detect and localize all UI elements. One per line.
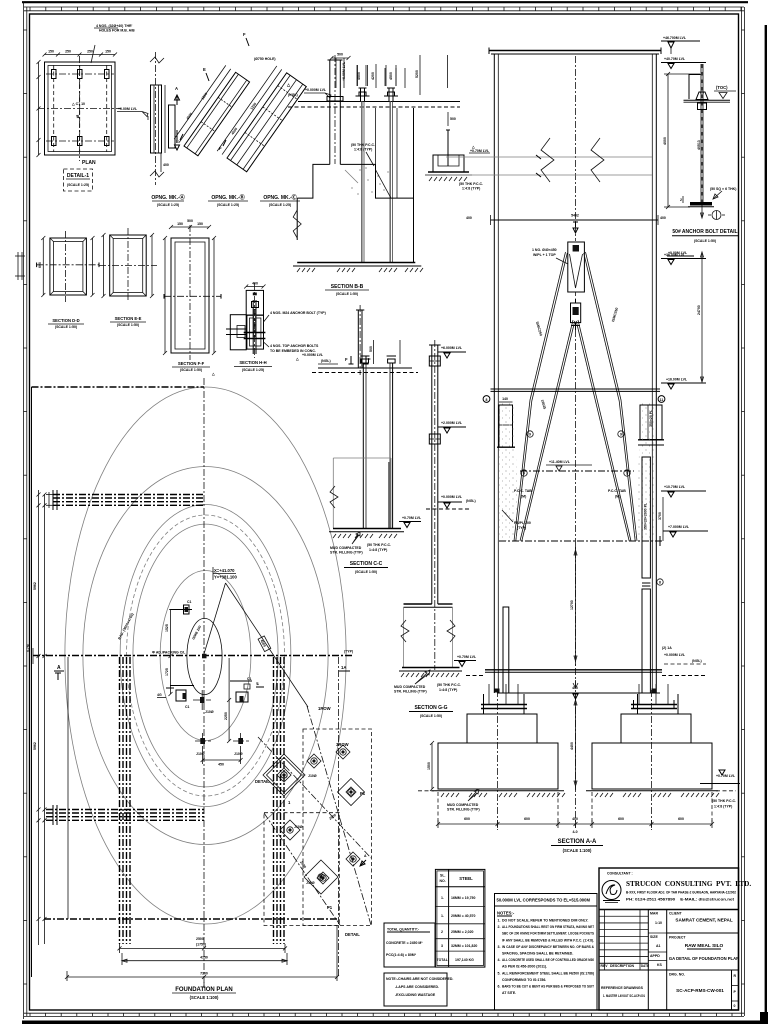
section A-A soil hatches <box>441 793 459 797</box>
svg-text:CONSULTANT :: CONSULTANT : <box>607 872 633 876</box>
svg-text:(TOC): (TOC) <box>716 85 728 90</box>
plan center small ellipse <box>187 618 222 694</box>
svg-text:BARS TO BE CUT & BENT AS PER B: BARS TO BE CUT & BENT AS PER BBS & PROPO… <box>502 985 595 989</box>
anchor detail top hook <box>689 75 702 100</box>
svg-text:+0.70M LVL: +0.70M LVL <box>716 774 736 778</box>
diamond 3 <box>336 745 350 759</box>
section A-A left center dashdot <box>497 690 499 830</box>
DETAIL-1 leader note <box>91 45 95 63</box>
svg-text:-EXCLUDING WASTAGE: -EXCLUDING WASTAGE <box>395 993 436 997</box>
svg-text:(SCALE 1:50): (SCALE 1:50) <box>180 368 202 372</box>
tower grade dashes at slab <box>466 675 485 677</box>
plan lower strip left anchor <box>52 805 54 825</box>
section C-C bottom <box>333 528 401 530</box>
svg-text:C1: C1 <box>187 600 192 604</box>
svg-text:ALL CONCRETE USED SHALL BE OF: ALL CONCRETE USED SHALL BE OF CONTROLLED… <box>502 958 594 962</box>
svg-text:B-XXX, FIRST FLOOR ADJ. OF TAR: B-XXX, FIRST FLOOR ADJ. OF TAR PHASE-2 G… <box>626 891 736 895</box>
section F-F side dims <box>164 238 166 353</box>
svg-text:140: 140 <box>502 397 508 401</box>
plan bottom dim row 2 <box>122 960 287 962</box>
tower left bracket <box>499 405 513 447</box>
svg-text:P1: P1 <box>360 791 366 796</box>
section E-E centerlines <box>99 265 157 267</box>
tower center dim at slab <box>575 545 577 666</box>
svg-text:1:4:8 (TYP): 1:4:8 (TYP) <box>714 805 732 809</box>
opening MK-B cross ticks <box>201 122 215 132</box>
svg-text:3ROW: 3ROW <box>336 742 349 747</box>
tower break zigzag right <box>591 138 604 182</box>
diamond 4 P1 <box>338 779 365 806</box>
svg-text:1.: 1. <box>498 919 501 923</box>
svg-text:4 NOS. (32Ø+40) THR': 4 NOS. (32Ø+40) THR' <box>96 24 132 28</box>
svg-text:MUD COMPACTED: MUD COMPACTED <box>330 546 362 550</box>
svg-text:9: 9 <box>529 433 531 437</box>
plan bottom dim row 3 <box>67 976 337 978</box>
svg-text:+0.000M LVL: +0.000M LVL <box>441 495 463 499</box>
opening MK-A bottom dim <box>160 153 162 172</box>
svg-text:2500: 2500 <box>196 937 204 941</box>
plan ring ellipse 3 <box>120 505 291 807</box>
opening MK-A arrows <box>175 95 180 105</box>
plan mid cluster center bolt <box>200 697 205 703</box>
diamonds dashdot diagonal 3 <box>307 706 371 925</box>
svg-text:P.C.C. TAB: P.C.C. TAB <box>608 489 626 493</box>
opening MK-A centerline <box>155 52 157 185</box>
svg-text:20MM = 40,570: 20MM = 40,570 <box>451 914 475 918</box>
section H-H left box <box>230 315 246 350</box>
svg-text:(SCALE 1:25): (SCALE 1:25) <box>269 203 291 207</box>
svg-text:DATE: DATE <box>641 964 650 968</box>
svg-text:(50 THK P.C.C.: (50 THK P.C.C. <box>437 683 461 687</box>
tower top cap <box>489 50 661 52</box>
title block logo <box>602 881 621 900</box>
svg-text:(2) 1A: (2) 1A <box>662 646 672 650</box>
svg-text:SC-ACP-RMS-CW-001: SC-ACP-RMS-CW-001 <box>676 988 724 993</box>
svg-text:P1: P1 <box>327 905 333 910</box>
section B-B right pedestal dim <box>447 112 449 126</box>
svg-text:8: 8 <box>486 398 488 402</box>
svg-text:(NGL): (NGL) <box>321 359 331 363</box>
svg-text:SECTION F-F: SECTION F-F <box>178 361 205 366</box>
svg-text:+0.70M LVL: +0.70M LVL <box>470 149 490 153</box>
svg-text:+0.000M LVL: +0.000M LVL <box>664 653 686 657</box>
svg-text:PCC(1:4:8) = 80M³: PCC(1:4:8) = 80M³ <box>386 953 417 957</box>
plan horizontal centerline <box>33 655 352 657</box>
section C-C break zigzag <box>330 486 338 508</box>
svg-text:+16.00M LVL: +16.00M LVL <box>666 378 688 382</box>
svg-text:4200: 4200 <box>371 72 375 80</box>
section F-F outer rect <box>171 238 209 353</box>
svg-text:1. MASTER LAYOUT SC-ACP-001: 1. MASTER LAYOUT SC-ACP-001 <box>603 994 645 998</box>
svg-text:1500: 1500 <box>427 762 431 770</box>
svg-text:DETAIL: DETAIL <box>255 779 270 784</box>
tower floor line <box>491 388 661 390</box>
tower base right pedestal plates <box>631 704 677 706</box>
svg-text:TOTAL: TOTAL <box>437 958 449 962</box>
svg-text:25MM = 2,020: 25MM = 2,020 <box>451 930 474 934</box>
plan ellipse 2 <box>83 467 328 845</box>
svg-text:Φ AD./PACKING C/L: Φ AD./PACKING C/L <box>152 651 186 655</box>
right ruler lines <box>741 7 743 1016</box>
section B-B footing stepped outline <box>297 164 330 198</box>
svg-text:CONCRETE = 2450 M³: CONCRETE = 2450 M³ <box>386 941 423 945</box>
tower base left pedestal plates <box>481 704 527 706</box>
svg-text:SBC OF 200 KN/M2 FOR 50MM SETT: SBC OF 200 KN/M2 FOR 50MM SETTLEMENT. LO… <box>502 932 595 936</box>
svg-text:5462: 5462 <box>571 214 579 218</box>
svg-text:PROJECT: PROJECT <box>669 936 686 940</box>
section B-B left break line <box>293 210 301 238</box>
DETAIL-1 top dimension line <box>45 54 116 56</box>
section A-A left footing slab <box>438 743 558 789</box>
svg-text:+7.000M LVL: +7.000M LVL <box>668 525 690 529</box>
section B-B bottom soil hatch <box>297 268 315 272</box>
diamond 6 big <box>304 860 338 894</box>
section D-D inner rect <box>53 242 83 292</box>
plan C1 dim bracket <box>169 609 183 611</box>
svg-text:1A: 1A <box>341 665 346 670</box>
svg-text:OPNG. MK.-Ⓒ: OPNG. MK.-Ⓒ <box>263 194 296 201</box>
svg-text:150: 150 <box>105 50 111 54</box>
svg-text:E: E <box>203 67 206 72</box>
svg-text:OPNG. MK.-Ⓑ: OPNG. MK.-Ⓑ <box>211 194 244 201</box>
svg-text:SL.: SL. <box>440 874 445 878</box>
svg-text:12700: 12700 <box>570 600 574 610</box>
svg-text:J10Ø: J10Ø <box>205 710 214 714</box>
svg-text:400: 400 <box>466 216 472 220</box>
DETAIL-1 anchor plate plan outer square <box>45 62 116 155</box>
opening MK-B inner lines <box>187 74 239 148</box>
section F-F inner rect <box>175 242 205 349</box>
svg-text:STR. FILLING (TYP): STR. FILLING (TYP) <box>394 690 427 694</box>
section A-A right footing slab <box>592 743 712 789</box>
svg-text:OPNG. MK.-Ⓐ: OPNG. MK.-Ⓐ <box>151 194 184 201</box>
section H-H cross bars <box>244 332 266 334</box>
svg-text:-LAPS ARE CONSIDERED.: -LAPS ARE CONSIDERED. <box>395 985 439 989</box>
steel table rows <box>435 906 485 908</box>
svg-text:SECTION H-H: SECTION H-H <box>239 360 266 365</box>
section G-G slab bars <box>404 603 432 605</box>
svg-text:APPD: APPD <box>650 954 660 958</box>
svg-text:STRUCON CONSULTING PVT. LTD: STRUCON CONSULTING PVT. LTD. <box>626 880 751 888</box>
right black edge <box>765 25 767 1024</box>
svg-text:150: 150 <box>197 222 203 226</box>
svg-text:△ C7 10: △ C7 10 <box>71 102 85 106</box>
svg-text:24700: 24700 <box>697 305 701 315</box>
page frame top ruler band <box>24 6 744 8</box>
section B-B extra dim verticals <box>335 58 337 88</box>
tower break lines grey <box>446 156 652 158</box>
anchor detail bottom plate <box>690 202 712 206</box>
svg-text:9: 9 <box>523 472 525 476</box>
diamonds dashed box B <box>264 813 339 926</box>
anchor detail nut <box>698 103 707 110</box>
plan left vertical column strip <box>119 657 121 944</box>
tower left dim near B-B <box>419 55 421 95</box>
svg-text:4G: 4G <box>157 693 162 697</box>
section G-G bottom <box>402 667 460 669</box>
svg-text:600: 600 <box>524 817 530 821</box>
svg-text:400: 400 <box>572 817 578 821</box>
section G-G column <box>431 345 433 604</box>
svg-text:(NGL): (NGL) <box>466 499 476 503</box>
plan mid cluster vertical dim <box>228 658 230 741</box>
svg-text:(NGL): (NGL) <box>288 93 298 97</box>
diamonds dashdot diagonal 2 <box>264 813 340 925</box>
tower left wall <box>493 54 495 693</box>
svg-text:500: 500 <box>369 346 373 352</box>
svg-text:DETAIL: DETAIL <box>345 932 360 937</box>
svg-text:+46.700M LVL: +46.700M LVL <box>663 36 687 40</box>
svg-text:500: 500 <box>187 219 193 223</box>
svg-text:5200: 5200 <box>415 70 419 78</box>
svg-text:(NGL): (NGL) <box>692 659 702 663</box>
section A-A left dim <box>431 743 433 789</box>
svg-text:(SCALE 1:50): (SCALE 1:50) <box>55 325 77 329</box>
section G-G marker box upper <box>429 356 440 366</box>
level note header box <box>495 894 598 1011</box>
svg-text:+6.000M LVL: +6.000M LVL <box>441 346 463 350</box>
svg-text:F: F <box>243 32 246 37</box>
svg-text:400: 400 <box>660 216 666 220</box>
svg-text:DO NOT SCALE, REFER TO MENTION: DO NOT SCALE, REFER TO MENTIONED DIM ONL… <box>502 919 588 923</box>
svg-text:MAR: MAR <box>650 912 658 916</box>
svg-text:+6.00M LVL: +6.00M LVL <box>342 61 346 81</box>
svg-text:AT SITE.: AT SITE. <box>502 991 516 995</box>
tower right inner column plates <box>642 457 650 578</box>
tower right wall <box>651 54 653 693</box>
tower break end ticks <box>536 155 541 159</box>
svg-text:NO.: NO. <box>440 879 446 883</box>
svg-text:ALL REINFORCEMENT STEEL SHALL: ALL REINFORCEMENT STEEL SHALL BE FE500 (… <box>502 971 594 975</box>
steel table column divider <box>448 869 450 967</box>
total quantity box <box>384 923 435 967</box>
opening MK-C slanted body <box>227 73 306 172</box>
tower right bracket <box>640 405 662 440</box>
svg-text:P.C.C. TAB: P.C.C. TAB <box>514 489 532 493</box>
tower slab lines <box>485 669 662 671</box>
title block mini column right <box>731 970 733 1010</box>
note chairs box <box>384 973 447 1006</box>
svg-text:+10.70M LVL: +10.70M LVL <box>664 485 686 489</box>
svg-text:DESCRIPTION: DESCRIPTION <box>610 964 634 968</box>
tower right vertical dim <box>701 88 703 218</box>
svg-text:NOTE:-CHAIRS ARE NOT CONSIDERE: NOTE:-CHAIRS ARE NOT CONSIDERED. <box>386 977 453 981</box>
page frame outer top line <box>22 1 748 3</box>
svg-text:600: 600 <box>678 817 684 821</box>
svg-text:4000: 4000 <box>663 137 667 145</box>
svg-text:TOTAL QUANTITY:-: TOTAL QUANTITY:- <box>387 928 420 932</box>
revision table rows <box>599 909 648 911</box>
plan diagonal dim marker 1 <box>258 636 271 652</box>
section B-B long anchor bolts grey <box>361 102 363 263</box>
svg-text:(TYP): (TYP) <box>344 650 353 654</box>
plan top boundary dashdot <box>32 386 205 388</box>
section B-B stipple diagonals <box>376 170 392 199</box>
section A-A center dim arrows <box>575 694 577 790</box>
section A-A left footing step <box>467 714 537 743</box>
svg-text:IN CASE OF ANY DISCREPANCY BET: IN CASE OF ANY DISCREPANCY BETWEEN NO. O… <box>502 945 594 949</box>
svg-text:50# ANCHOR BOLT DETAIL: 50# ANCHOR BOLT DETAIL <box>672 229 737 235</box>
plan bottom boundary dashdot <box>44 918 337 920</box>
svg-text:MUD COMPACTED: MUD COMPACTED <box>447 803 479 807</box>
svg-text:450: 450 <box>218 763 224 767</box>
tower lower dim right <box>662 497 664 541</box>
svg-text:500: 500 <box>337 53 343 57</box>
svg-text:3700: 3700 <box>658 512 662 520</box>
svg-text:(SCALE 1:50): (SCALE 1:50) <box>355 570 377 574</box>
svg-text:(SCALE 1:50): (SCALE 1:50) <box>336 292 358 296</box>
svg-text:+0.000M LVL: +0.000M LVL <box>302 353 324 357</box>
svg-text:(50 THK P.C.C.: (50 THK P.C.C. <box>459 182 483 186</box>
section F-F top dim line <box>171 226 209 228</box>
plan center point <box>202 654 207 659</box>
plan lower bolt right <box>238 738 243 744</box>
steel table box <box>435 869 485 967</box>
svg-text:C1: C1 <box>247 677 252 681</box>
plan vertical centerline <box>203 378 205 988</box>
svg-text:1525: 1525 <box>165 624 169 632</box>
svg-text:1:4:8 (TYP): 1:4:8 (TYP) <box>462 187 480 191</box>
svg-text:(SCALE 1:100): (SCALE 1:100) <box>190 995 219 1000</box>
anchor detail flange line <box>684 99 731 101</box>
svg-text:SECTION E-E: SECTION E-E <box>115 316 142 321</box>
tower brace left inner <box>520 320 573 541</box>
svg-text:40513: 40513 <box>697 140 701 150</box>
section H-H main box <box>247 315 264 349</box>
tower left inner column plate <box>503 607 509 693</box>
svg-text:+0.70M LVL: +0.70M LVL <box>402 516 422 520</box>
svg-text:GA DETAIL OF FOUNDATION PLAN: GA DETAIL OF FOUNDATION PLAN <box>669 956 739 961</box>
svg-text:(50 THK P.C.C.: (50 THK P.C.C. <box>712 799 736 803</box>
svg-text:PLAN: PLAN <box>82 160 96 166</box>
section A-A left pedestal <box>483 694 485 714</box>
anchor detail dim line <box>667 74 669 207</box>
opening MK-B slanted body <box>184 72 250 155</box>
section A-A ground dashes beyond slabs <box>418 790 434 792</box>
section D-D outer rect <box>50 238 87 295</box>
svg-text:(SCALE 1:25): (SCALE 1:25) <box>67 183 89 187</box>
svg-text:0: 0 <box>734 1004 736 1008</box>
svg-text:AS PER IS:456-2000 (2011).: AS PER IS:456-2000 (2011). <box>502 965 547 969</box>
anchor detail bottom leader <box>713 191 722 199</box>
section A-A right footing step <box>621 714 691 743</box>
plan left end centerline ticks <box>32 648 34 664</box>
diamonds dashed box A <box>303 729 372 926</box>
svg-text:J10Ø: J10Ø <box>294 825 303 829</box>
plan lower beam strip <box>46 809 204 811</box>
svg-text:(Ø750 HOLE): (Ø750 HOLE) <box>254 57 276 61</box>
tower circled mark lower right <box>657 579 663 585</box>
tower mid level dashdot +11.40M LVL <box>520 470 634 472</box>
svg-text:+0.00M LVL: +0.00M LVL <box>668 251 688 255</box>
svg-text:J10Ø: J10Ø <box>308 774 317 778</box>
svg-text:+40.70M LVL: +40.70M LVL <box>664 57 686 61</box>
section H-H bolt <box>252 300 254 354</box>
svg-text:+0.00M LVL: +0.00M LVL <box>118 107 138 111</box>
svg-text:DETAIL-1: DETAIL-1 <box>67 173 89 179</box>
plan ring ellipse 4 <box>133 524 278 787</box>
anchor detail bolt shaft <box>701 64 704 203</box>
svg-text:9: 9 <box>620 433 622 437</box>
svg-text:(50 THK P.C.C.: (50 THK P.C.C. <box>351 143 375 147</box>
tower apex lower rect <box>571 303 581 323</box>
anchor detail small dim <box>682 196 684 203</box>
svg-text:2: 2 <box>441 930 443 934</box>
tower circled marks on braces <box>527 431 533 437</box>
tower right vertical dim lower <box>701 252 703 382</box>
svg-text:1 NO. Ø40×450: 1 NO. Ø40×450 <box>532 248 557 252</box>
opening MK-A member body <box>151 85 162 153</box>
svg-text:+11.40M LVL: +11.40M LVL <box>549 460 571 464</box>
svg-text:J10Ø: J10Ø <box>306 881 315 885</box>
tower floor circled mark left <box>483 396 490 403</box>
plan inner ellipse 5 <box>160 571 251 741</box>
plan right vertical gridline dashdot <box>337 657 339 977</box>
DETAIL-1 left dimension line <box>38 62 40 155</box>
svg-text:SECTION D-D: SECTION D-D <box>52 318 79 323</box>
svg-text:(1750): (1750) <box>196 943 206 947</box>
svg-text:600: 600 <box>464 817 470 821</box>
title block outer box <box>599 868 739 1010</box>
svg-text:2: 2 <box>680 198 682 202</box>
svg-text:STR. FILLING (TYP): STR. FILLING (TYP) <box>330 551 363 555</box>
svg-text:E: E <box>176 139 179 144</box>
section D-D dims <box>42 238 44 295</box>
tower concrete stipple right <box>635 402 656 541</box>
svg-text:1:10: 1:10 <box>655 921 662 925</box>
diamonds dashdot diagonal 1 <box>258 737 371 858</box>
svg-text:1:4:8 (TYP): 1:4:8 (TYP) <box>354 148 372 152</box>
plan left heavy boundary <box>31 387 33 977</box>
tower brace right inner <box>578 320 631 541</box>
bottom ruler band <box>24 1012 744 1014</box>
svg-text:600: 600 <box>38 262 42 268</box>
svg-text:4400: 4400 <box>570 742 574 750</box>
svg-text:1.: 1. <box>441 914 444 918</box>
tower brace right outer <box>586 252 638 541</box>
svg-text:4 NOS. TOP ANCHOR BOLTS: 4 NOS. TOP ANCHOR BOLTS <box>270 344 319 348</box>
DETAIL-1 centerlines <box>38 108 121 110</box>
section G-G break zigzags <box>401 620 409 642</box>
tower apex hopper rect <box>568 242 585 292</box>
section B-B right pedestal <box>433 155 464 172</box>
svg-text:32MM = 101,820: 32MM = 101,820 <box>451 944 477 948</box>
section A-A base lines <box>432 790 564 792</box>
tower brace left outer <box>514 252 566 541</box>
plan mid cluster left detail <box>176 690 186 701</box>
opening MK-A break top <box>150 57 164 63</box>
opening MK-C inner lines <box>231 75 291 160</box>
anchor detail circled mark <box>712 211 721 220</box>
section B-B right pedestal base <box>428 171 469 173</box>
svg-text:J10Ø: J10Ø <box>234 752 243 756</box>
svg-text:SECTION B-B: SECTION B-B <box>331 284 364 290</box>
svg-text:5962: 5962 <box>33 742 37 750</box>
revision table verticals <box>604 910 606 971</box>
svg-text:(SCALE 1:100): (SCALE 1:100) <box>563 848 592 853</box>
plan lower bolt dim <box>203 759 241 761</box>
svg-text:+2.000M LVL: +2.000M LVL <box>441 421 463 425</box>
svg-text:6.: 6. <box>498 985 501 989</box>
svg-text:(50 THK P.C.C.: (50 THK P.C.C. <box>367 543 391 547</box>
title block divider below consultant <box>599 909 739 911</box>
section B-B ground line <box>298 101 460 103</box>
svg-text:FOUNDATION PLAN: FOUNDATION PLAN <box>175 987 233 993</box>
section B-B vertical dim lines above <box>375 64 377 88</box>
svg-text:2250: 2250 <box>224 712 228 720</box>
opening MK-C cross ticks <box>245 132 265 146</box>
svg-text:HOLES FOR M.B. A/B: HOLES FOR M.B. A/B <box>99 29 135 33</box>
